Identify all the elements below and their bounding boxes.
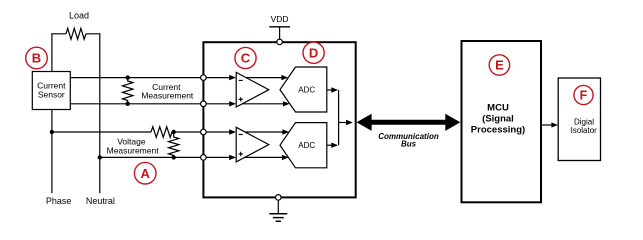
svg-text:Phase: Phase	[46, 196, 72, 206]
terminal input 3	[201, 129, 207, 135]
svg-text:ADC: ADC	[298, 85, 315, 94]
wire terminal2 to op-amp	[206, 101, 236, 106]
wire current measurement bottom	[70, 103, 200, 105]
terminal input 1	[201, 75, 207, 81]
wire VDD stem	[279, 27, 281, 39]
wire terminal1 to op-amp	[206, 75, 236, 80]
terminal input 2	[201, 101, 207, 107]
wire op-amp1 to ADC1 lower	[243, 101, 290, 106]
svg-text:C: C	[241, 51, 251, 66]
label D	[303, 42, 324, 63]
label C	[235, 47, 256, 68]
label Digial Isolator	[571, 117, 598, 135]
VDD rail bar	[269, 26, 290, 28]
junction dot burden bottom	[126, 102, 130, 106]
wire ADC1 output	[327, 87, 338, 92]
svg-text:Measurement: Measurement	[141, 90, 194, 100]
svg-text:VDD: VDD	[271, 14, 289, 24]
junction dot divider top	[172, 130, 176, 134]
digital isolator box	[558, 78, 600, 161]
label Current Measurement	[141, 82, 194, 101]
wire ground stem	[277, 200, 279, 213]
terminal VDD	[277, 39, 283, 45]
wire output bus vertical	[338, 90, 340, 145]
wire op-amp2 to ADC2 upper	[245, 129, 289, 134]
svg-text:B: B	[32, 51, 41, 66]
label Current Sensor	[37, 81, 66, 100]
label B	[26, 47, 48, 69]
terminal ground	[276, 195, 282, 201]
ground	[269, 214, 287, 222]
wire neutral vertical line	[99, 34, 101, 193]
wire op-amp2 to ADC2 lower	[245, 155, 289, 160]
svg-text:Isolator: Isolator	[571, 126, 598, 135]
wire phase vertical line	[51, 34, 53, 193]
svg-text:Load: Load	[69, 11, 89, 21]
MCU box	[462, 41, 542, 202]
ADC U4	[280, 123, 327, 168]
terminal input 4	[201, 155, 207, 161]
label Load	[69, 11, 89, 21]
svg-text:ADC: ADC	[298, 141, 315, 150]
svg-text:Neutral: Neutral	[86, 196, 115, 206]
ADC U3	[280, 67, 327, 112]
svg-text:D: D	[309, 46, 318, 61]
resistor voltage shunt	[169, 132, 179, 157]
svg-text:Bus: Bus	[401, 139, 417, 148]
junction dot burden top	[126, 75, 130, 79]
svg-text:Sensor: Sensor	[38, 89, 65, 99]
junction dot phase tap	[50, 130, 54, 134]
wire ADC2 output	[327, 143, 338, 148]
svg-text:E: E	[495, 58, 504, 73]
wire terminal3 to op-amp	[206, 129, 236, 134]
wire terminal4 to op-amp	[206, 155, 236, 160]
svg-text:(Signal: (Signal	[482, 114, 514, 125]
AFE box	[203, 42, 355, 197]
label F	[574, 85, 593, 104]
label Neutral	[86, 196, 115, 206]
label A	[134, 162, 156, 184]
svg-text:A: A	[141, 166, 151, 181]
wire voltage measurement top	[52, 131, 201, 133]
wire bus to box edge	[339, 120, 353, 125]
resistor voltage series	[151, 127, 172, 138]
resistor current burden	[122, 78, 132, 104]
label Communication Bus	[378, 132, 439, 148]
resistor Load	[66, 28, 86, 39]
junction dot neutral tap	[98, 155, 102, 159]
svg-text:Measurement: Measurement	[107, 145, 160, 155]
label MCU Signal Processing	[471, 103, 525, 136]
op-amp U2	[236, 127, 269, 162]
label E	[489, 55, 509, 75]
wire current measurement top	[70, 77, 200, 79]
label VDD	[271, 14, 289, 24]
svg-text:Processing): Processing)	[471, 125, 525, 136]
label Phase	[46, 196, 72, 206]
wire MCU to isolator	[541, 122, 558, 127]
wire voltage measurement bottom	[100, 156, 201, 158]
current sensor box	[32, 72, 70, 110]
op-amp U1	[236, 72, 269, 107]
wire load top loop	[51, 33, 100, 35]
wire op-amp1 to ADC1 upper	[246, 75, 288, 80]
junction dot divider bottom	[172, 155, 176, 159]
label Voltage Measurement	[107, 137, 160, 156]
communication bus arrow	[357, 114, 461, 131]
svg-text:MCU: MCU	[487, 103, 509, 114]
svg-text:F: F	[580, 89, 588, 103]
